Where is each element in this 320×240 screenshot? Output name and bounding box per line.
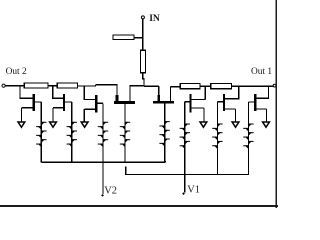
svg-text:V2: V2 — [104, 186, 117, 197]
svg-text:Out 1: Out 1 — [251, 67, 272, 77]
svg-text:V1: V1 — [187, 185, 200, 196]
svg-text:IN: IN — [149, 13, 160, 24]
svg-text:Out 2: Out 2 — [6, 67, 27, 77]
